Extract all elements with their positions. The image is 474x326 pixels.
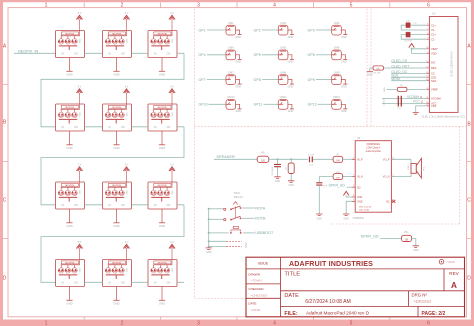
rotary encoder detent mark: [233, 202, 237, 205]
key switch UM10 net GP10: [198, 95, 241, 113]
svg-text:D/C: D/C: [431, 61, 436, 65]
svg-text:11: 11: [427, 97, 429, 99]
svg-text:16: 16: [426, 72, 428, 74]
title block outline: [246, 257, 465, 317]
svg-text:OLED 1.3in 128x64 (Monochrome: OLED 1.3in 128x64 (Monochrome I2C): [422, 115, 466, 118]
svg-text:Gain 24 dB: Gain 24 dB: [359, 209, 370, 211]
dashed group border: encoder bottom edge: [195, 298, 247, 300]
svg-text:SCK: SCK: [431, 75, 437, 79]
net label MOSI: [391, 77, 426, 81]
svg-text:U2: U2: [432, 12, 436, 16]
wire encoder shield row 2: [209, 242, 248, 248]
capacitor C10 charge pump 2: [401, 32, 426, 43]
dashed group border: oled left edge: [370, 9, 372, 127]
wire neopixel row 1 to row 2 wrap: [41, 53, 184, 127]
svg-text:6: 6: [427, 320, 430, 326]
neopixel LED6: [148, 85, 177, 149]
svg-text:9: 9: [427, 38, 428, 40]
svg-text:3: 3: [197, 320, 200, 326]
svg-text:IN_N: IN_N: [357, 176, 363, 179]
neopixel LED11: [103, 241, 132, 305]
svg-text:GP3: GP3: [308, 28, 315, 32]
svg-text:15: 15: [426, 66, 428, 68]
resistor R7 amp input: [333, 154, 355, 163]
net label SPKR_SD pulldown: [361, 233, 402, 238]
svg-text:ADAFRUIT INDUSTRIES: ADAFRUIT INDUSTRIES: [289, 260, 373, 268]
key switch UM2 net GP2: [254, 21, 294, 39]
svg-text:Adafruit MacroPad 2040 rev D: Adafruit MacroPad 2040 rev D: [306, 311, 370, 316]
svg-text:8: 8: [427, 33, 428, 35]
ground oled vss: [413, 113, 419, 115]
svg-text:GND: GND: [344, 217, 350, 220]
svg-text:UM6: UM6: [334, 46, 340, 50]
svg-text:CS: CS: [431, 72, 435, 76]
svg-text:GP12: GP12: [308, 103, 317, 107]
svg-text:2: 2: [121, 2, 124, 8]
wire speaker filter node: [269, 158, 308, 160]
net label SPEAKER: [214, 154, 257, 159]
svg-text:UM12: UM12: [333, 95, 341, 99]
svg-text:U4: U4: [357, 136, 361, 140]
key switch UM3 net GP3: [308, 21, 348, 39]
svg-text:10K: 10K: [336, 160, 340, 162]
resistor R6 speaker series: [257, 152, 269, 163]
svg-text:VCOMH: VCOMH: [431, 97, 441, 101]
svg-text:A: A: [451, 281, 457, 290]
svg-text:DATE: DATE: [248, 301, 256, 305]
rotary encoder SW1 PEC11 label: [234, 191, 244, 199]
title block FILE cell: [284, 311, 369, 317]
wire neopixel row 4 interconnect: [85, 281, 185, 283]
svg-text:GP6: GP6: [308, 53, 315, 57]
svg-text:5: 5: [427, 52, 428, 54]
svg-text:7: 7: [427, 28, 428, 30]
svg-text:ROTA: ROTA: [255, 206, 266, 210]
frame row letters left: [3, 44, 7, 282]
wire encoder common bus: [208, 208, 210, 248]
svg-text:UM5: UM5: [280, 46, 286, 50]
svg-text:>YEAR: >YEAR: [446, 260, 455, 264]
svg-text:4: 4: [273, 2, 276, 8]
resistor R3 oled reset pulldown: [370, 66, 392, 75]
key switch UM6 net GP6: [308, 46, 348, 64]
frame row letters right: [467, 44, 471, 282]
svg-text:GP10: GP10: [198, 103, 207, 107]
svg-text:VCC 12: VCC 12: [413, 100, 424, 104]
neopixel LED7: [56, 163, 85, 227]
wire amp ground pin: [343, 201, 355, 220]
svg-text:VDD: VDD: [357, 196, 362, 199]
svg-text:C1+: C1+: [431, 23, 436, 27]
op IC U4 PAM8302A audio amplifier: [353, 136, 392, 220]
svg-text:C: C: [3, 198, 7, 204]
svg-text:>DRGNO: >DRGNO: [414, 299, 432, 304]
svg-text:6/27/2024 10:08 AM: 6/27/2024 10:08 AM: [305, 299, 351, 305]
svg-text:>TOWN: >TOWN: [250, 279, 261, 283]
wire neopixel row 3 to row 4 wrap: [41, 205, 184, 282]
svg-text:GP5: GP5: [254, 53, 261, 57]
key switch UM7 net GP7: [198, 70, 241, 88]
svg-text:RES: RES: [431, 66, 437, 70]
svg-text:C11 1UF: C11 1UF: [384, 97, 386, 106]
op IC U4 pin stubs and numbers: [352, 157, 395, 201]
resistor R5 speaker shunt: [286, 159, 295, 187]
svg-text:UM2: UM2: [280, 21, 286, 25]
svg-text:6: 6: [427, 2, 430, 8]
svg-text:100: 100: [261, 159, 266, 162]
svg-text:GP1: GP1: [198, 28, 205, 32]
svg-text:1M: 1M: [405, 238, 408, 241]
svg-text:GND: GND: [413, 249, 419, 252]
svg-text:DRAWN: DRAWN: [248, 272, 260, 276]
rotary encoder coupling link: [235, 207, 237, 218]
rotary encoder contact A: [209, 206, 255, 211]
svg-text:4: 4: [273, 320, 276, 326]
svg-text:UM1: UM1: [228, 21, 234, 25]
svg-text:SDA: SDA: [431, 79, 437, 83]
svg-text:C1-: C1-: [431, 28, 435, 32]
rotary encoder contact B: [209, 216, 255, 221]
title block DRG cell: [412, 292, 432, 304]
svg-text:VO_N: VO_N: [383, 176, 390, 179]
svg-text:2.5W Class D: 2.5W Class D: [366, 148, 380, 150]
svg-text:>DATE: >DATE: [250, 308, 260, 312]
svg-text:USBBOOT: USBBOOT: [255, 231, 274, 235]
title block DATE cell: [248, 301, 260, 312]
svg-text:GND: GND: [289, 184, 295, 187]
svg-text:C8 100UF: C8 100UF: [272, 166, 274, 176]
key switch UM8 net GP8: [254, 70, 294, 88]
svg-text:R3 10K: R3 10K: [374, 72, 382, 74]
svg-text:C: C: [467, 198, 471, 204]
svg-text:>CHECKED: >CHECKED: [250, 294, 268, 298]
dashed group border: speaker right edge: [330, 126, 460, 224]
svg-text:GP4: GP4: [198, 53, 205, 57]
svg-text:UM10: UM10: [227, 95, 235, 99]
net label OLED_DC: [391, 70, 426, 74]
resistor R2 vref: [384, 85, 426, 92]
svg-text:23: 23: [426, 47, 428, 49]
svg-text:5: 5: [350, 2, 353, 8]
capacitor C11 vcomh filter: [382, 96, 427, 110]
svg-text:GP2: GP2: [254, 28, 261, 32]
svg-text:C2+: C2+: [431, 33, 436, 37]
svg-text:OLED 128X64 MONO: OLED 128X64 MONO: [450, 51, 454, 77]
svg-text:GND: GND: [206, 251, 212, 254]
resistor R11 spkr_sd pulldown: [402, 231, 416, 246]
svg-text:UM4: UM4: [228, 46, 234, 50]
svg-text:GP7: GP7: [198, 78, 205, 82]
svg-text:VDD 2.5-5.5V: VDD 2.5-5.5V: [359, 206, 372, 208]
svg-text:2: 2: [353, 185, 354, 187]
svg-text:PAM8302: PAM8302: [353, 216, 365, 220]
speaker SP1: [391, 158, 425, 178]
net label OLED_RST: [391, 64, 426, 68]
svg-text:14: 14: [426, 61, 428, 63]
svg-text:GP9: GP9: [308, 78, 315, 82]
svg-text:4: 4: [353, 157, 354, 159]
svg-text:Audio Amplifier: Audio Amplifier: [366, 150, 382, 153]
power +3V amp: [343, 191, 355, 197]
svg-text:10: 10: [426, 88, 428, 90]
svg-text:PAM8302A: PAM8302A: [367, 142, 381, 146]
svg-text:GND: GND: [357, 200, 363, 203]
title block DRAWN cell: [248, 272, 261, 282]
net label NEOPIX_IN: [14, 50, 56, 54]
svg-text:4.7UF: 4.7UF: [308, 154, 315, 156]
svg-text:1UF: 1UF: [323, 185, 328, 187]
neopixel LED3: [148, 12, 177, 76]
neopixel LED12: [148, 241, 177, 305]
neopixel LED4: [56, 85, 85, 149]
svg-text:UM7: UM7: [228, 70, 234, 74]
net label SCK: [391, 74, 426, 78]
svg-text:PAGE: 2/2: PAGE: 2/2: [422, 311, 446, 317]
dashed group border: keys/encoder left edge: [194, 9, 196, 299]
key switch UM12 net GP12: [308, 95, 348, 113]
key switch UM4 net GP4: [198, 46, 241, 64]
wire encoder shield row 1: [209, 240, 242, 242]
svg-text:VBAT: VBAT: [431, 47, 438, 51]
net label SPKR_SD amp: [329, 183, 356, 187]
svg-text:UM9: UM9: [334, 70, 340, 74]
neopixel LED10: [56, 241, 85, 305]
wire neopixel row 3 interconnect: [85, 204, 185, 206]
key switch UM9 net GP9: [308, 70, 348, 88]
wire neopixel row 2 to row 3 wrap: [41, 127, 184, 205]
dashed group border: horizontal divider: [195, 125, 467, 127]
op IC U2 OLED display box: [422, 12, 466, 119]
svg-text:DATE: DATE: [284, 293, 299, 299]
svg-text:D: D: [467, 276, 471, 282]
wire neopixel row 2 interconnect: [85, 126, 185, 128]
svg-text:17: 17: [426, 76, 428, 78]
svg-text:C10 1UF: C10 1UF: [404, 41, 413, 43]
neopixel LED1: [56, 12, 85, 76]
neopixel LED2: [103, 12, 132, 76]
capacitor C13 series coupling: [308, 154, 333, 166]
svg-text:VDD: VDD: [431, 52, 437, 56]
frame column numbers top: [45, 2, 431, 8]
capacitor C9 charge pump 1: [401, 21, 426, 30]
svg-text:D: D: [3, 276, 7, 282]
power +3V oled: [409, 44, 427, 54]
title block CHECKED cell: [248, 287, 268, 297]
svg-text:CHECKED: CHECKED: [248, 287, 264, 291]
net label OLED_CS: [391, 59, 426, 63]
svg-text:SPKR_SD: SPKR_SD: [361, 233, 379, 238]
svg-text:UM11: UM11: [280, 95, 287, 99]
svg-text:6: 6: [427, 24, 428, 26]
svg-text:1.5W: 1.5W: [408, 166, 410, 171]
svg-text:10K: 10K: [336, 178, 340, 180]
capacitor C8 speaker shunt: [272, 159, 281, 183]
neopixel LED8: [103, 163, 132, 227]
svg-text:TITLE: TITLE: [284, 271, 300, 277]
svg-text:GND: GND: [384, 87, 386, 92]
svg-text:REV: REV: [449, 271, 459, 276]
wire neopixel row 1 interconnect: [85, 52, 185, 54]
svg-text:UM8: UM8: [280, 70, 286, 74]
svg-text:IN_P: IN_P: [357, 158, 363, 161]
ground oled reset resistor: [367, 72, 373, 77]
key switch UM5 net GP5: [254, 46, 294, 64]
svg-text:FILE:: FILE:: [284, 311, 297, 317]
svg-text:ROTB: ROTB: [255, 217, 266, 221]
svg-text:R11: R11: [404, 231, 409, 234]
svg-text:VCOMH 11: VCOMH 11: [407, 95, 423, 99]
svg-text:VO_P: VO_P: [383, 158, 390, 161]
neopixel LED5: [103, 85, 132, 149]
svg-text:DRG Nº: DRG Nº: [412, 292, 428, 297]
svg-text:GND: GND: [275, 180, 281, 183]
svg-text:PEC11: PEC11: [234, 195, 244, 199]
svg-text:7: 7: [353, 199, 354, 201]
svg-text:C2-: C2-: [431, 37, 435, 41]
svg-text:6: 6: [353, 195, 354, 197]
svg-text:1: 1: [353, 175, 354, 177]
wire oled vss to ground: [416, 106, 427, 113]
svg-text:ISSUE: ISSUE: [258, 261, 269, 265]
svg-text:5: 5: [350, 320, 353, 326]
svg-text:VSS: VSS: [431, 104, 437, 108]
dashed group border: keys right edge: [366, 9, 368, 127]
neopixel LED9: [148, 163, 177, 227]
op IC U2 pin numbers: [426, 24, 428, 107]
svg-text:SD: SD: [357, 186, 361, 189]
ground encoder: [206, 248, 212, 254]
svg-text:GND: GND: [245, 242, 248, 248]
svg-text:NC: NC: [386, 200, 390, 203]
svg-text:UM3: UM3: [334, 21, 340, 25]
svg-text:1: 1: [45, 320, 48, 326]
svg-text:1: 1: [45, 2, 48, 8]
key switch UM1 net GP1: [198, 21, 241, 39]
frame column numbers bottom: [45, 320, 431, 326]
svg-text:18: 18: [426, 79, 428, 81]
svg-text:GND: GND: [317, 217, 323, 220]
svg-text:2: 2: [121, 320, 124, 326]
title block year stamp: [439, 259, 455, 264]
svg-text:GP11: GP11: [254, 103, 263, 107]
ground spkr_sd resistor: [413, 246, 419, 252]
svg-text:3: 3: [197, 2, 200, 8]
resistor R10 amp inverting input: [319, 172, 355, 183]
title block DATE value: [284, 293, 350, 305]
op IC U2 pin names and stubs: [427, 23, 441, 108]
no-connect cross amp NC pin: [392, 200, 395, 203]
svg-text:SPKR_SD: SPKR_SD: [329, 183, 346, 187]
svg-text:SPEAKER: SPEAKER: [216, 154, 235, 159]
title block REV cell: [449, 271, 459, 290]
key switch UM11 net GP11: [254, 95, 294, 113]
capacitor C14 amp input bypass: [316, 183, 328, 221]
svg-text:13: 13: [426, 104, 428, 106]
pushbutton switch USBBOOT: [209, 226, 255, 234]
svg-text:GP8: GP8: [254, 78, 261, 82]
svg-text:VREF: VREF: [431, 88, 438, 92]
